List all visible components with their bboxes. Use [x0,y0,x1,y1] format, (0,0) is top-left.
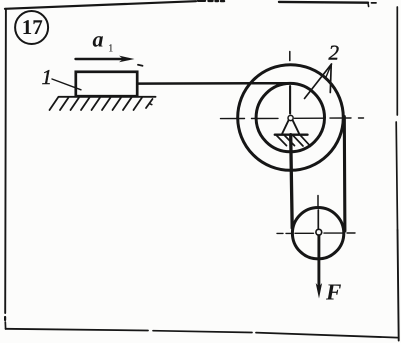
block 1 (body on surface) [76,72,137,96]
pin circle at pulley 2 axle [288,115,293,120]
svg-text:1: 1 [108,43,114,55]
speck near ground line end [150,103,152,106]
leader line for label 2 [305,64,332,99]
lower pulley circle [292,208,343,259]
svg-text:F: F [325,280,341,305]
leader line for label 1 [52,79,81,90]
acceleration arrow a1 [76,56,143,66]
pin support base line [275,133,308,135]
vertical radius line inside pulley 2 [289,86,291,114]
frame bottom border [6,329,398,338]
vertical centerline dash above lower pulley [317,196,319,207]
horizontal dash-dot centerline of lower pulley [277,232,355,234]
svg-text:a: a [93,27,104,52]
vertical centerline inside lower pulley [317,210,319,229]
pin support triangle [282,116,299,134]
horizontal dash-dot centerline of pulley 2 [221,117,364,120]
frame top border [5,1,376,9]
svg-text:17: 17 [22,15,43,39]
wire: rope from outer rim of pulley 2 down to right side of lower pulley [343,117,347,232]
pulley 2 outer circle [238,65,344,171]
vertical centerline dash above pulley 2 [289,52,291,61]
frame right border [396,7,399,341]
force F arrow [316,236,322,299]
pulley 2 inner circle [256,83,324,151]
wire: rope from block to inner step of pulley 2 [138,82,289,85]
frame left border [4,9,7,329]
figure number circle 17 [15,11,48,44]
svg-text:2: 2 [329,41,340,65]
svg-text:1: 1 [42,65,53,89]
axle circle of lower pulley [316,229,322,235]
ground hatching [50,98,153,111]
wire: rope from support down to left side of lower pulley [291,135,293,228]
pin support hatching [277,135,311,146]
ground line under block [59,96,156,98]
